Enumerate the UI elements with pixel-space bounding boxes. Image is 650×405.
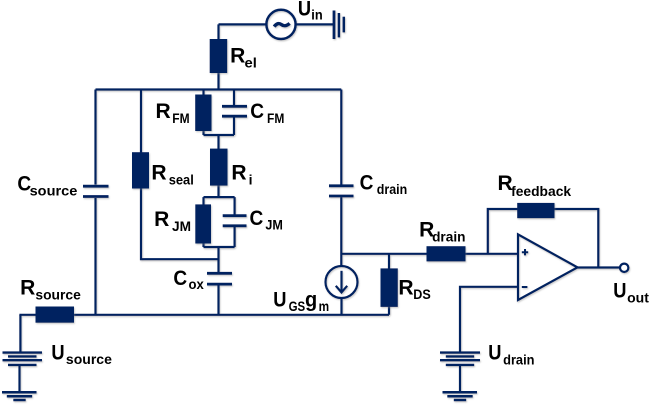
- svg-text:U: U: [488, 342, 501, 365]
- svg-text:feedback: feedback: [511, 183, 571, 199]
- svg-text:R: R: [151, 162, 166, 185]
- svg-text:JM: JM: [172, 218, 191, 234]
- svg-text:U: U: [613, 279, 626, 302]
- svg-text:R: R: [419, 219, 434, 242]
- svg-text:source: source: [30, 182, 78, 198]
- svg-text:drain: drain: [432, 228, 465, 244]
- svg-text:GS: GS: [289, 298, 306, 314]
- svg-text:U: U: [51, 342, 64, 365]
- svg-text:FM: FM: [267, 110, 284, 126]
- svg-text:C: C: [17, 172, 31, 195]
- svg-text:R: R: [154, 208, 169, 231]
- svg-text:R: R: [230, 45, 245, 68]
- svg-text:C: C: [250, 207, 264, 230]
- svg-text:C: C: [360, 172, 374, 195]
- svg-text:el: el: [245, 55, 257, 71]
- svg-text:R: R: [398, 276, 413, 299]
- svg-text:FM: FM: [172, 110, 189, 126]
- svg-text:U: U: [273, 289, 286, 312]
- svg-text:DS: DS: [413, 286, 431, 302]
- svg-text:source: source: [35, 287, 81, 303]
- svg-text:R: R: [20, 276, 35, 299]
- svg-text:drain: drain: [503, 351, 534, 367]
- svg-text:out: out: [627, 290, 649, 306]
- svg-text:JM: JM: [265, 217, 283, 233]
- svg-text:in: in: [311, 7, 322, 23]
- svg-text:C: C: [173, 267, 187, 290]
- svg-text:C: C: [250, 100, 264, 123]
- svg-text:R: R: [498, 172, 513, 195]
- svg-text:g: g: [305, 289, 317, 312]
- svg-text:U: U: [298, 0, 311, 20]
- svg-text:m: m: [319, 298, 330, 314]
- svg-text:drain: drain: [377, 181, 407, 197]
- svg-text:seal: seal: [169, 171, 194, 187]
- svg-text:ox: ox: [189, 276, 204, 292]
- svg-text:i: i: [249, 171, 253, 187]
- svg-text:R: R: [156, 100, 171, 123]
- svg-text:source: source: [66, 351, 112, 367]
- svg-text:R: R: [231, 162, 246, 185]
